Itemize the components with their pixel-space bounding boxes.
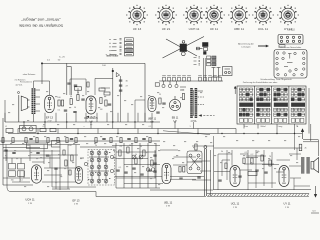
- svg-text:5k: 5k: [221, 151, 223, 153]
- dashed arrow: [199, 114, 215, 116]
- svg-text:1k: 1k: [135, 154, 137, 156]
- wire: [210, 150, 212, 196]
- wire: [112, 68, 114, 122]
- resistor top right: [299, 144, 302, 151]
- trimmer circles below rail: [155, 81, 186, 90]
- tube base diagram UCL 11: [252, 5, 274, 25]
- grid boxes above mixer: [99, 88, 105, 91]
- diode tube EB11: [169, 96, 180, 111]
- svg-text:EB 11: EB 11: [172, 116, 179, 119]
- junction on rail: [41, 62, 43, 64]
- svg-text:Entbrummer Netzschalter: Entbrummer Netzschalter: [279, 46, 302, 49]
- wire: [3, 147, 40, 149]
- title text (rotated): [18, 18, 63, 29]
- wire right edge: [310, 124, 312, 141]
- svg-text:0,1: 0,1: [149, 126, 152, 128]
- svg-text:0,1: 0,1: [120, 146, 123, 148]
- arrow up: [301, 129, 303, 139]
- svg-text:70: 70: [269, 156, 271, 158]
- output transformer: [301, 157, 310, 174]
- ratio detector box: [187, 151, 202, 174]
- wire top rail: [42, 62, 145, 64]
- micro value specks: [46, 91, 48, 92]
- svg-text:50: 50: [74, 107, 76, 109]
- svg-text:500: 500: [26, 145, 29, 147]
- svg-text:Leitungen: Leitungen: [241, 45, 251, 48]
- switch cluster frame: [88, 150, 115, 186]
- shielded lead: [204, 146, 207, 196]
- svg-text:UCL 11: UCL 11: [231, 202, 240, 206]
- mains arrow: [314, 186, 316, 197]
- pot circles: [132, 155, 143, 159]
- vertical wires output: [247, 150, 249, 190]
- tube base diagram UBF 11: [228, 5, 250, 25]
- svg-text:UBF 11: UBF 11: [234, 27, 245, 31]
- lamp holder stack: [196, 43, 208, 55]
- svg-text:UF 11: UF 11: [210, 27, 218, 31]
- component row between rails: [2, 138, 4, 143]
- wire loop around tube: [7, 150, 96, 192]
- svg-text:s: s: [84, 126, 85, 128]
- tube UBF11 (IF): [148, 96, 156, 111]
- IF transformer taps: [198, 91, 205, 105]
- caps near RF tube: [64, 109, 67, 111]
- trimmer row: [162, 76, 222, 81]
- wire: [3, 157, 60, 159]
- switch box arrow: [234, 86, 236, 94]
- wires upper block: [70, 78, 145, 122]
- junction dots bus3: [221, 133, 222, 134]
- svg-text:UBF 11: UBF 11: [148, 117, 157, 120]
- wire: [70, 67, 72, 96]
- svg-text:UCH 11: UCH 11: [25, 198, 35, 202]
- svg-text:Ferritantenne: Ferritantenne: [20, 81, 33, 84]
- wires lower middle mesh: [112, 146, 214, 184]
- svg-text:UY 11: UY 11: [284, 202, 292, 206]
- svg-text:L1: L1: [5, 126, 7, 128]
- shielded lead from dial: [204, 58, 206, 81]
- wire AF coupling: [115, 175, 162, 177]
- tube base diagram UCH 11: [183, 5, 205, 25]
- svg-text:als Verl.: als Verl.: [15, 85, 23, 87]
- wire left edge: [2, 118, 4, 185]
- svg-text:25: 25: [159, 94, 161, 96]
- svg-text:6...25: 6...25: [59, 57, 65, 59]
- components between output tubes: [251, 158, 253, 164]
- lamp legend rows: [194, 56, 217, 66]
- junction dots on rails: [23, 121, 24, 122]
- svg-text:0,1: 0,1: [245, 152, 248, 154]
- IF transformer: [190, 88, 197, 118]
- components lower middle: [119, 150, 121, 156]
- bottom rail: [213, 189, 311, 191]
- dashed arrow mixer: [86, 116, 97, 118]
- svg-text:Ua 110: Ua 110: [287, 29, 295, 32]
- svg-text:Schaltplan für die Geräte: Schaltplan für die Geräte: [18, 24, 63, 29]
- svg-text:0,1: 0,1: [58, 110, 61, 112]
- svg-text:UCL 11: UCL 11: [258, 27, 268, 31]
- dial cord diagram with lamp: [163, 37, 205, 59]
- caps upper block: [67, 82, 70, 84]
- svg-text:2k: 2k: [95, 145, 97, 147]
- svg-text:UF 21: UF 21: [162, 27, 171, 31]
- tube base diagram UF 21: [155, 5, 177, 25]
- bus rail 1: [5, 121, 160, 123]
- svg-text:0,5: 0,5: [182, 90, 185, 92]
- legend symbol table: [110, 38, 134, 56]
- svg-text:0,2: 0,2: [43, 126, 46, 128]
- svg-text:1: 1: [189, 126, 190, 128]
- bus drops: [5, 113, 236, 134]
- svg-text:Mittel: Mittel: [261, 125, 266, 128]
- caps bottom left: [46, 154, 49, 156]
- svg-text:4 POL: 4 POL: [190, 121, 197, 123]
- trimmer caps stack: [119, 79, 122, 81]
- resistors near RF tube: [58, 100, 60, 106]
- wire inner loop: [52, 150, 96, 187]
- coupling box output: [248, 172, 257, 176]
- wire right of switch box: [308, 88, 310, 134]
- svg-text:0,1: 0,1: [119, 167, 122, 169]
- resistors near mixer: [100, 98, 102, 104]
- tube UY11 (rectifier): [279, 166, 289, 187]
- tube UEL11 (AF): [162, 163, 171, 183]
- wire: [66, 63, 68, 95]
- svg-text:0,1: 0,1: [49, 145, 52, 147]
- wires lower left mesh: [0, 145, 80, 190]
- cluster specks: [90, 151, 91, 152]
- chassis bar (hatched): [207, 194, 309, 197]
- tube UCH11 (mixer): [86, 96, 96, 114]
- bus rail 4 segments: [0, 140, 160, 142]
- phono input triangle: [116, 73, 119, 77]
- tube base diagram UY 11: [277, 5, 299, 25]
- wire: [95, 77, 113, 79]
- svg-text:0,1: 0,1: [20, 180, 23, 182]
- parts near IF tube: [159, 98, 161, 104]
- svg-text:Lang: Lang: [278, 126, 282, 128]
- svg-text:Tastensatz: Tastensatz: [106, 53, 120, 57]
- bus rail 3: [8, 133, 302, 135]
- svg-text:10k: 10k: [11, 180, 14, 182]
- wave switch contact matrix: [237, 86, 306, 124]
- wire: [80, 146, 116, 148]
- svg-text:50: 50: [129, 145, 131, 147]
- small boxes left: [6, 129, 13, 133]
- svg-text:1M: 1M: [100, 109, 103, 111]
- wire: [116, 187, 160, 189]
- svg-text:100: 100: [57, 97, 60, 99]
- svg-text:2k: 2k: [305, 148, 307, 150]
- wire: [246, 155, 266, 157]
- tube base diagram UF 11: [203, 5, 225, 25]
- electrolytic caps: [212, 68, 221, 78]
- bus rail 2: [18, 128, 236, 130]
- band filter boxes: [9, 158, 25, 176]
- pots left of AF tube: [146, 168, 155, 172]
- tube base diagram UF 13: [126, 5, 148, 25]
- svg-text:„Virtuos“ und „Allegro“: „Virtuos“ und „Allegro“: [21, 18, 61, 23]
- svg-text:50: 50: [140, 146, 142, 148]
- caps in component row: [29, 138, 32, 140]
- svg-text:UCH 11: UCH 11: [189, 27, 200, 31]
- wire: [41, 63, 43, 84]
- svg-text:UF 13: UF 13: [133, 27, 142, 31]
- svg-text:50: 50: [70, 96, 72, 98]
- svg-text:UEL 11: UEL 11: [164, 200, 173, 204]
- wire: [144, 63, 146, 122]
- antenna coil (hatched): [31, 88, 40, 122]
- vertical wires lower middle: [116, 143, 156, 188]
- svg-text:EF 13: EF 13: [46, 115, 53, 119]
- caps near AF tube: [153, 154, 156, 156]
- extra parts output: [225, 163, 227, 169]
- wave switch wafer circles: [84, 150, 113, 184]
- tube UCH11 output (bottom left): [32, 165, 42, 183]
- svg-text:100: 100: [68, 145, 71, 147]
- pickup input box: [223, 67, 233, 76]
- loudspeaker: [311, 158, 319, 173]
- tube EF13 AF (bottom): [75, 167, 82, 184]
- svg-text:0,3: 0,3: [195, 150, 198, 152]
- svg-text:Zeichnung der Kontaktfedern: Zeichnung der Kontaktfedern von oben: [243, 81, 278, 84]
- oscillator coil box: [20, 125, 36, 132]
- extra parts lower left: [12, 152, 15, 154]
- resistors right of AF tube: [179, 167, 181, 173]
- wire: [43, 150, 45, 164]
- coupling boxes: [27, 141, 61, 149]
- svg-text:Abschirmung der: Abschirmung der: [238, 42, 254, 45]
- wires below switch box: [294, 124, 296, 134]
- svg-text:Schalterstellung: Taste TA: Schalterstellung: Taste TA gedrückt: [260, 78, 292, 81]
- output mesh extras: [163, 131, 295, 180]
- svg-text:0,2: 0,2: [251, 154, 254, 156]
- wires under ratio box: [170, 175, 204, 177]
- wire AM rail: [159, 80, 223, 82]
- frame antenna / speaker cone: [19, 95, 30, 122]
- svg-text:EF 13: EF 13: [73, 198, 80, 202]
- tube EF13 (RF): [45, 95, 55, 112]
- svg-text:ohne Rahmen: ohne Rahmen: [23, 74, 36, 76]
- wire: [150, 189, 213, 191]
- svg-text:Kurz: Kurz: [244, 126, 248, 128]
- wires output mesh: [214, 148, 310, 190]
- tube UCL11 (output): [230, 166, 240, 187]
- wire: [303, 139, 319, 141]
- wire output top rail: [240, 147, 302, 149]
